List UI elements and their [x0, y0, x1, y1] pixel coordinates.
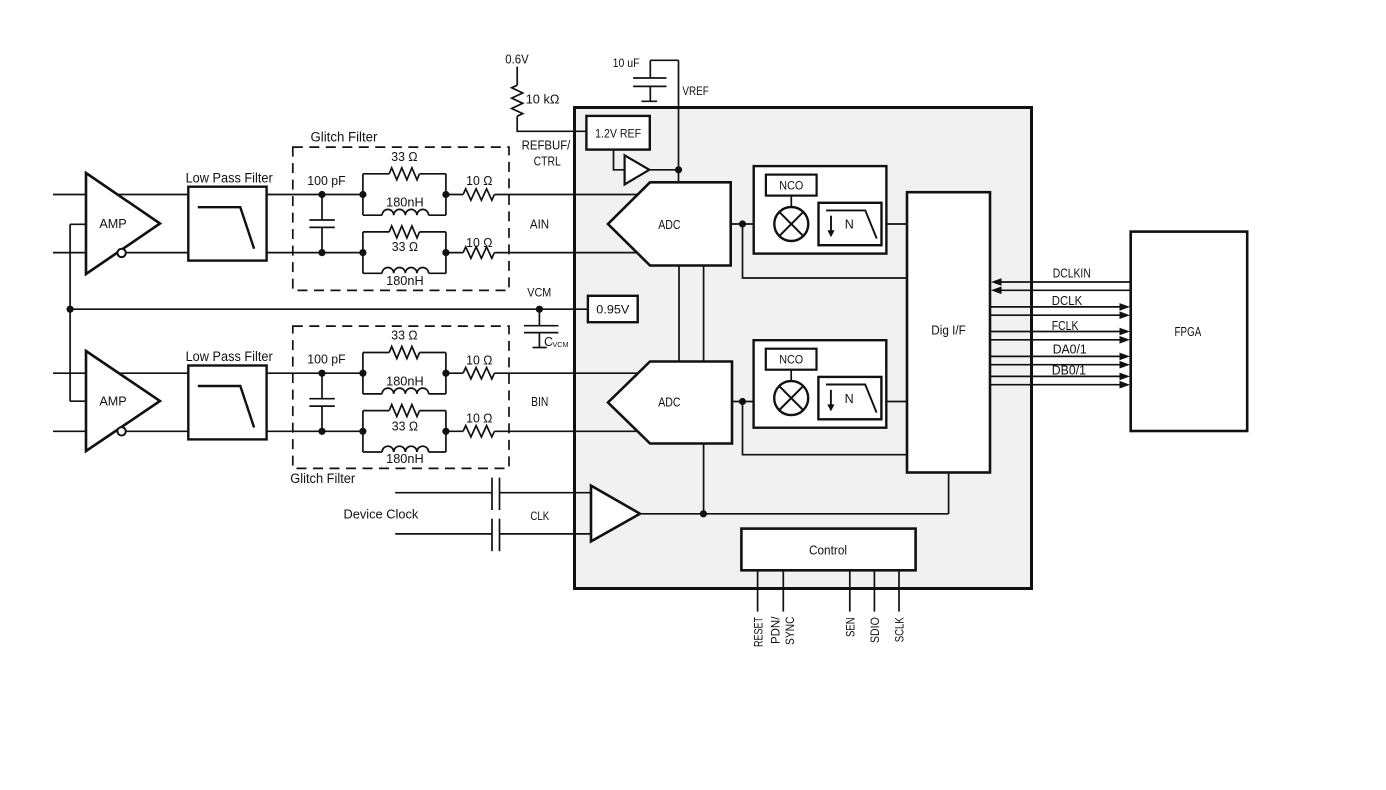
svg-text:Dig I/F: Dig I/F [931, 323, 966, 337]
svg-text:ADC: ADC [658, 395, 680, 409]
svg-text:DB0/1: DB0/1 [1052, 364, 1086, 378]
svg-text:10 Ω: 10 Ω [466, 236, 492, 250]
svg-text:SCLK: SCLK [893, 617, 907, 642]
svg-text:Low Pass Filter: Low Pass Filter [186, 349, 274, 364]
svg-text:DCLKIN: DCLKIN [1053, 266, 1091, 280]
svg-text:10 Ω: 10 Ω [466, 353, 492, 367]
svg-text:0.95V: 0.95V [596, 302, 629, 316]
svg-text:N: N [845, 218, 854, 232]
svg-text:Control: Control [809, 544, 847, 558]
svg-text:Glitch Filter: Glitch Filter [311, 129, 378, 144]
svg-text:DA0/1: DA0/1 [1053, 342, 1087, 356]
svg-text:DCLK: DCLK [1052, 294, 1083, 308]
svg-text:FCLK: FCLK [1052, 319, 1079, 333]
svg-text:SDIO: SDIO [868, 617, 882, 643]
svg-text:CTRL: CTRL [534, 154, 561, 168]
svg-text:NCO: NCO [779, 178, 803, 192]
svg-text:0.6V: 0.6V [505, 52, 529, 67]
svg-text:33 Ω: 33 Ω [391, 329, 417, 343]
svg-text:ADC: ADC [658, 218, 680, 232]
svg-text:VREF: VREF [682, 84, 708, 98]
svg-text:180nH: 180nH [386, 274, 424, 288]
svg-text:180nH: 180nH [386, 452, 424, 466]
svg-text:33 Ω: 33 Ω [392, 419, 418, 433]
svg-text:RESET: RESET [751, 617, 765, 647]
svg-text:AMP: AMP [99, 394, 126, 409]
svg-text:1.2V REF: 1.2V REF [595, 126, 641, 140]
svg-text:10 Ω: 10 Ω [466, 412, 492, 426]
svg-text:33 Ω: 33 Ω [391, 150, 417, 164]
svg-text:N: N [845, 392, 854, 406]
svg-text:Device Clock: Device Clock [344, 507, 419, 522]
svg-text:100 pF: 100 pF [307, 353, 346, 367]
svg-text:SEN: SEN [844, 617, 858, 637]
svg-text:SYNC: SYNC [783, 616, 797, 645]
svg-text:180nH: 180nH [386, 196, 424, 210]
svg-text:AIN: AIN [530, 218, 549, 232]
svg-text:VCM: VCM [527, 286, 551, 300]
svg-text:VCM: VCM [553, 340, 569, 349]
svg-text:PDN/: PDN/ [769, 616, 783, 644]
svg-text:33 Ω: 33 Ω [392, 240, 418, 254]
svg-text:100 pF: 100 pF [307, 174, 346, 188]
svg-text:BIN: BIN [531, 395, 548, 409]
svg-text:180nH: 180nH [386, 374, 424, 388]
svg-text:NCO: NCO [779, 352, 803, 366]
svg-text:10 uF: 10 uF [613, 56, 640, 70]
svg-text:Low Pass Filter: Low Pass Filter [186, 170, 274, 185]
svg-text:10 kΩ: 10 kΩ [526, 91, 560, 106]
svg-text:FPGA: FPGA [1175, 325, 1202, 339]
svg-text:Glitch Filter: Glitch Filter [290, 471, 355, 486]
svg-text:10 Ω: 10 Ω [466, 174, 492, 188]
svg-text:AMP: AMP [99, 216, 126, 231]
svg-text:CLK: CLK [530, 509, 549, 523]
svg-text:REFBUF/: REFBUF/ [522, 139, 571, 153]
